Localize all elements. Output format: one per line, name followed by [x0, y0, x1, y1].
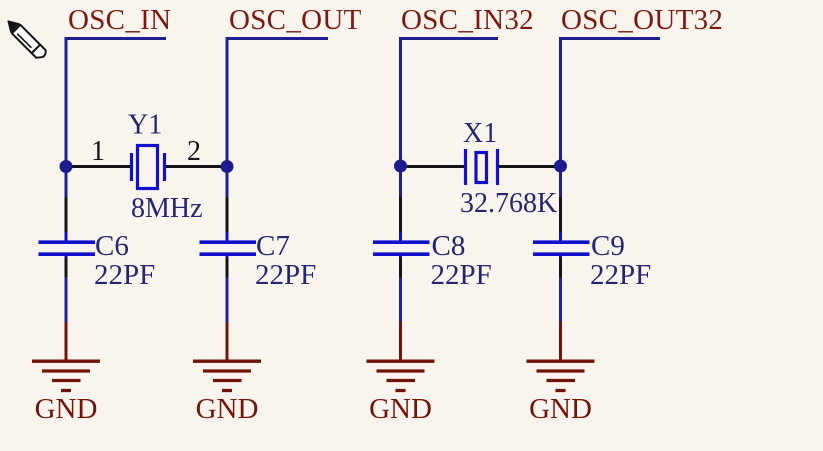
svg-text:GND: GND	[35, 393, 98, 425]
svg-text:OSC_IN32: OSC_IN32	[401, 4, 534, 36]
svg-text:Y1: Y1	[128, 110, 162, 141]
svg-text:C9: C9	[591, 230, 625, 262]
svg-text:32.768K: 32.768K	[460, 188, 557, 219]
svg-text:X1: X1	[463, 118, 497, 149]
svg-text:OSC_OUT32: OSC_OUT32	[561, 4, 723, 36]
svg-text:1: 1	[91, 136, 105, 167]
svg-text:22PF: 22PF	[94, 259, 155, 291]
svg-text:GND: GND	[369, 393, 432, 425]
svg-text:OSC_IN: OSC_IN	[68, 4, 171, 36]
svg-text:C7: C7	[256, 230, 290, 262]
svg-text:22PF: 22PF	[431, 259, 492, 291]
svg-text:2: 2	[187, 136, 201, 167]
svg-text:C8: C8	[432, 230, 466, 262]
svg-text:22PF: 22PF	[590, 259, 651, 291]
svg-text:C6: C6	[95, 230, 129, 262]
svg-text:8MHz: 8MHz	[131, 193, 203, 224]
svg-text:GND: GND	[529, 393, 592, 425]
svg-text:GND: GND	[196, 393, 259, 425]
svg-text:22PF: 22PF	[255, 259, 316, 291]
svg-text:OSC_OUT: OSC_OUT	[229, 4, 362, 36]
